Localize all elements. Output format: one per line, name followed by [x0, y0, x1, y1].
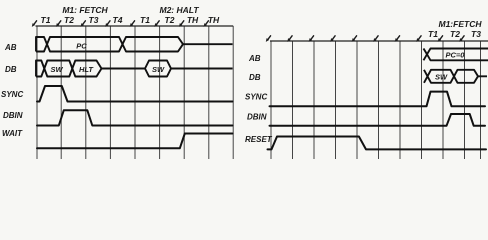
svg-text:T2: T2	[64, 15, 74, 25]
bus value label PC (left AB)	[76, 41, 87, 50]
svg-text:TH: TH	[187, 15, 199, 25]
svg-text:AB: AB	[4, 43, 17, 52]
svg-text:SYNC: SYNC	[1, 90, 23, 99]
machine cycle label M1:FETCH (right)	[439, 19, 483, 29]
DBIN waveform (right)	[270, 114, 486, 126]
grid lines (right)	[271, 41, 481, 159]
machine cycle label M2:HALT (left)	[159, 5, 199, 15]
signal label WAIT (left)	[2, 129, 23, 138]
svg-text:T2: T2	[450, 29, 460, 39]
svg-text:T1: T1	[428, 29, 438, 39]
svg-text:T1: T1	[41, 15, 51, 25]
signal label SYNC (left)	[1, 90, 23, 99]
SYNC waveform (left)	[37, 86, 233, 102]
axis arrows (left)	[32, 21, 209, 27]
signal label RESET (right)	[245, 135, 273, 144]
signal label DB (left)	[5, 65, 17, 74]
bus value label HLT (left DB)	[79, 65, 94, 74]
bus value label PC=0 (right AB)	[446, 51, 466, 60]
DB waveform (right): flat line, X, SW bubble, X, bubble, close, line	[424, 70, 487, 83]
svg-text:TH: TH	[208, 15, 220, 25]
svg-text:SW: SW	[50, 65, 63, 74]
svg-text:M1: FETCH: M1: FETCH	[62, 5, 108, 15]
state labels T1 T2 T3 (right)	[428, 29, 481, 39]
svg-text:T3: T3	[471, 29, 481, 39]
svg-text:T1: T1	[140, 15, 150, 25]
DB bus waveform (left): open, X, SW, X, HLT, close, line, SW bubble, line	[36, 61, 233, 77]
state labels T1 T2 T3 T4 T1 T2 TH TH (left)	[41, 15, 220, 25]
svg-text:AB: AB	[248, 54, 261, 63]
svg-text:DB: DB	[5, 65, 17, 74]
svg-text:DB: DB	[249, 73, 261, 82]
bus value label SW (left DB, M2)	[152, 65, 165, 74]
svg-text:PC: PC	[76, 41, 87, 50]
signal label AB (right)	[248, 54, 261, 63]
svg-text:T2: T2	[165, 15, 175, 25]
signal label DBIN (right)	[247, 113, 267, 122]
svg-text:T4: T4	[113, 15, 123, 25]
signal label SYNC (right)	[245, 93, 267, 102]
time axis (right)	[270, 40, 488, 42]
DBIN waveform (left)	[37, 110, 233, 125]
WAIT waveform (left)	[37, 134, 233, 149]
machine cycle label M1:FETCH (left)	[62, 5, 108, 15]
svg-text:DBIN: DBIN	[3, 111, 23, 120]
RESET waveform (right)	[268, 137, 487, 150]
svg-text:WAIT: WAIT	[2, 129, 23, 138]
svg-text:SYNC: SYNC	[245, 93, 267, 102]
svg-text:M2: HALT: M2: HALT	[159, 5, 199, 15]
svg-text:PC=0: PC=0	[446, 51, 466, 60]
svg-text:SW: SW	[435, 73, 448, 82]
AB bus waveform (left): open, X, PC segment, X, segment, close, flat line	[36, 37, 233, 52]
time axis (left)	[36, 25, 234, 27]
svg-text:M1:FETCH: M1:FETCH	[439, 19, 483, 29]
svg-text:RESET: RESET	[245, 135, 273, 144]
grid lines (left)	[37, 26, 233, 159]
SYNC waveform (right)	[270, 92, 486, 107]
svg-text:HLT: HLT	[79, 65, 94, 74]
AB waveform (right): flat line then bus PC=0	[424, 49, 488, 61]
svg-text:DBIN: DBIN	[247, 113, 267, 122]
signal label DB (right)	[249, 73, 261, 82]
signal label AB (left)	[4, 43, 17, 52]
bus value label SW (left DB, M1 T1)	[50, 65, 63, 74]
svg-text:SW: SW	[152, 65, 165, 74]
svg-text:T3: T3	[89, 15, 99, 25]
signal label DBIN (left)	[3, 111, 23, 120]
bus value label SW (right DB)	[435, 73, 448, 82]
axis arrows (right)	[266, 36, 464, 42]
